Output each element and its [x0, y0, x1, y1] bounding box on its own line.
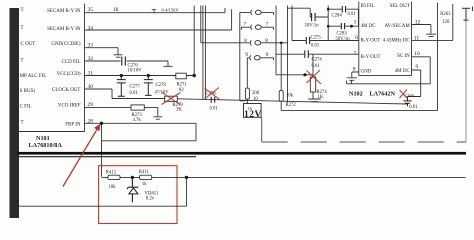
wire pin11 to R263 — [412, 4, 453, 40]
wire pin35 — [85, 8, 226, 13]
resistor R274 — [310, 54, 327, 100]
wire inner return loop — [102, 123, 197, 141]
ground pin32 — [164, 65, 173, 67]
node pin31 VCC junction — [193, 74, 196, 77]
repair mark X over C266 — [400, 90, 408, 99]
svg-text:120: 120 — [442, 20, 450, 25]
capacitor 50V/1n — [288, 8, 328, 28]
svg-text:50V/1n: 50V/1n — [305, 24, 320, 29]
svg-text:10k: 10k — [286, 94, 294, 99]
svg-text:C275: C275 — [311, 36, 322, 41]
N102 right column labels — [383, 4, 411, 74]
test point mark — [152, 10, 156, 14]
op-amp U2 : IC N102 box — [359, 2, 412, 76]
svg-text:N101: N101 — [36, 135, 50, 142]
ground R274 — [308, 99, 321, 102]
wire 12V rail vertical right — [465, 20, 467, 142]
svg-text:9: 9 — [245, 52, 248, 58]
wire pin31 — [85, 75, 195, 77]
N102 pin numbers — [353, 19, 421, 72]
svg-text:FBP IN: FBP IN — [65, 123, 81, 128]
svg-text:ID FIL: ID FIL — [361, 4, 375, 9]
ground pin33 — [114, 55, 123, 57]
resistor R413 — [106, 170, 120, 190]
svg-text:82: 82 — [179, 88, 184, 93]
scan edge bar — [10, 8, 20, 218]
wire outer box bottom and right edge — [281, 3, 437, 111]
svg-text:10: 10 — [414, 51, 420, 57]
svg-text:50V/1n: 50V/1n — [336, 37, 351, 42]
N101 right column pin labels — [47, 9, 81, 127]
capacitor C278 — [144, 74, 169, 96]
wire vertical bus d — [327, 6, 329, 41]
wire vertical bus c — [291, 6, 293, 41]
svg-text:B-Y OUT: B-Y OUT — [361, 55, 381, 60]
node output junction — [185, 176, 188, 179]
svg-text:4.43MHz DC: 4.43MHz DC — [383, 39, 411, 44]
svg-text:R-Y OUT: R-Y OUT — [361, 39, 381, 44]
wire pin12 — [412, 25, 431, 34]
wire verticals from top into clock line — [203, 6, 206, 100]
svg-text:1K: 1K — [113, 8, 119, 13]
svg-text:9: 9 — [416, 64, 419, 70]
node pin28 junction — [100, 122, 103, 125]
svg-text:4M DC: 4M DC — [361, 24, 377, 29]
svg-text:R271: R271 — [177, 83, 188, 88]
svg-text:0.01: 0.01 — [409, 105, 418, 110]
svg-text:T: T — [21, 58, 24, 63]
wire vertical bus a — [276, 6, 313, 75]
capacitor C277 — [117, 74, 141, 96]
svg-text:LA7642N: LA7642N — [370, 91, 396, 98]
resistor R411 — [139, 170, 152, 187]
wire pin33 — [85, 48, 119, 55]
svg-text:10k: 10k — [109, 185, 117, 190]
svg-text:R272: R272 — [286, 103, 297, 108]
svg-text:SECAM B-Y IN: SECAM B-Y IN — [47, 27, 81, 32]
svg-text:3K: 3K — [176, 108, 182, 113]
svg-text:0.4/156V: 0.4/156V — [162, 8, 180, 13]
svg-text:8: 8 — [244, 38, 247, 44]
svg-text:7: 7 — [266, 22, 269, 28]
svg-text:S BUS): S BUS) — [20, 89, 36, 94]
wire VD411 net horizontal — [102, 176, 466, 178]
svg-text:T: T — [21, 121, 24, 126]
svg-text:4.7k: 4.7k — [133, 118, 142, 123]
wire pin34 — [85, 9, 232, 30]
capacitor C276 — [122, 57, 142, 74]
svg-text:10: 10 — [253, 97, 258, 102]
wire return to left bus — [19, 177, 187, 206]
thin second separator line — [19, 156, 196, 157]
svg-text:C277: C277 — [130, 85, 141, 90]
svg-text:C283: C283 — [337, 32, 348, 37]
N102 left column labels — [361, 4, 381, 74]
svg-text:N102: N102 — [349, 91, 363, 98]
svg-text:MP ALC FIL: MP ALC FIL — [20, 74, 47, 79]
capacitor top right — [462, 7, 473, 21]
ground pin8 — [347, 78, 357, 84]
wire pin9 to C266 — [408, 70, 421, 97]
connector P6 — [240, 10, 274, 101]
svg-text:0.01: 0.01 — [130, 91, 139, 96]
svg-text:7: 7 — [354, 51, 357, 57]
svg-text:5: 5 — [354, 19, 357, 25]
resistor 200/10 fusible — [245, 58, 259, 104]
svg-text:C FIL: C FIL — [20, 105, 32, 110]
svg-text:R263: R263 — [440, 12, 451, 17]
resistor R279 — [165, 96, 184, 112]
wire vertical feed to pin31 — [193, 6, 195, 76]
svg-text:SC IN: SC IN — [397, 54, 410, 59]
wire pin10 loop — [347, 57, 431, 84]
connector P8 — [201, 6, 288, 46]
capacitor C275 on pin6 wire — [292, 36, 359, 49]
resistor R263 — [440, 12, 451, 25]
svg-text:10/16V: 10/16V — [128, 69, 143, 74]
svg-text:35: 35 — [88, 7, 94, 13]
thick separator line — [18, 152, 467, 155]
connector P9 — [247, 55, 273, 60]
repair mark X over R279 — [162, 92, 181, 105]
svg-text:VCO IREF: VCO IREF — [58, 104, 81, 109]
svg-text:200: 200 — [252, 91, 260, 96]
svg-text:VCC(CCD): VCC(CCD) — [57, 72, 81, 77]
capacitor C286 — [206, 91, 219, 111]
svg-text:8: 8 — [265, 38, 268, 44]
red highlight rectangle — [99, 166, 177, 224]
svg-text:47/16V: 47/16V — [155, 91, 170, 96]
svg-text:GND(CCDIE): GND(CCDIE) — [51, 42, 80, 47]
connector P7 — [241, 25, 273, 30]
capacitor C283 on pin5 wire — [327, 23, 359, 42]
resistor R271 — [176, 73, 188, 93]
svg-text:12V: 12V — [244, 110, 262, 120]
op-amp U1 : IC N101 box right edge and bottom — [19, 4, 85, 132]
red annotation arrow — [63, 124, 100, 187]
svg-text:R411: R411 — [139, 170, 150, 175]
repair mark X over C286 — [205, 88, 220, 100]
svg-text:6: 6 — [355, 35, 358, 41]
svg-text:AV/SECAM: AV/SECAM — [385, 24, 411, 29]
svg-text:CCD FIL: CCD FIL — [61, 60, 80, 65]
svg-text:4M DC: 4M DC — [395, 69, 411, 74]
wire vertical bus b — [287, 6, 289, 103]
svg-text:0.01: 0.01 — [210, 106, 219, 111]
wire pin28 branch down to R413 — [101, 123, 103, 177]
svg-text:LA76810/8A: LA76810/8A — [29, 142, 63, 149]
ground pin29 — [153, 117, 162, 119]
wire pin30 — [85, 89, 165, 99]
capacitor C266 — [403, 93, 418, 110]
svg-text:C284: C284 — [332, 14, 343, 19]
capacitor C284 — [327, 6, 358, 26]
wire pin29 — [85, 107, 158, 116]
svg-text:7: 7 — [244, 22, 247, 28]
svg-text:C OUT: C OUT — [21, 42, 36, 47]
power label 12V — [244, 104, 262, 120]
svg-text:9: 9 — [266, 52, 269, 58]
svg-text:SEL OUT: SEL OUT — [390, 4, 410, 9]
svg-text:GND: GND — [361, 70, 372, 75]
N101 left column pin labels — [20, 8, 47, 126]
wire 12V rail dashed run — [262, 117, 466, 142]
wire pin32 — [85, 61, 169, 66]
svg-text:8.2v: 8.2v — [146, 197, 155, 202]
capacitor C274 on pin7 wire — [276, 50, 359, 68]
svg-text:T: T — [21, 26, 24, 31]
resistor R272 — [279, 42, 296, 111]
svg-text:T: T — [21, 8, 24, 13]
svg-text:0.01: 0.01 — [311, 43, 320, 48]
svg-text:R413: R413 — [106, 170, 117, 175]
repair mark X over R274 — [307, 70, 322, 84]
svg-text:CLOCK OUT: CLOCK OUT — [52, 88, 80, 93]
wire pin8 gnd — [352, 72, 359, 77]
zener diode VD411 — [127, 177, 138, 202]
resistor R273 — [131, 105, 144, 123]
node R274 feed — [303, 73, 306, 76]
node VD411 tap — [131, 176, 134, 179]
ground pin12 — [426, 34, 436, 36]
svg-text:1k: 1k — [142, 182, 147, 187]
wire clock-out long run to N102 area — [177, 99, 407, 104]
svg-text:SECAM R-Y IN: SECAM R-Y IN — [47, 9, 81, 14]
N101 pin numbers 35-28 — [88, 7, 94, 125]
wire pin28 — [85, 122, 197, 124]
svg-text:0.01: 0.01 — [348, 12, 357, 17]
svg-text:C278: C278 — [156, 83, 167, 88]
